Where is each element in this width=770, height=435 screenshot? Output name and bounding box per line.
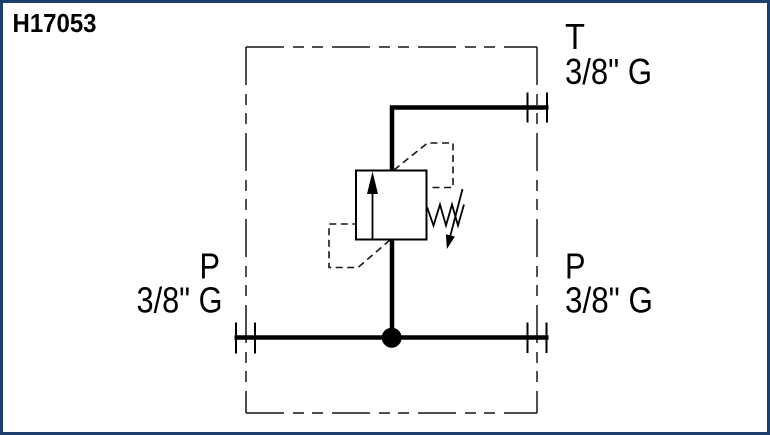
enclosure boundary (dashed) <box>246 47 537 413</box>
flow arrow <box>372 192 374 239</box>
wire P line <box>235 335 549 340</box>
port P left ticks <box>235 323 237 354</box>
wire valve to junction <box>390 238 395 338</box>
pilot line lower <box>329 224 390 268</box>
pilot line upper <box>394 143 453 188</box>
node junction <box>382 328 402 348</box>
wire T line <box>392 108 549 174</box>
spring <box>427 205 464 226</box>
port T ticks <box>527 93 529 123</box>
svg-text:3/8" G: 3/8" G <box>565 280 653 321</box>
valve body U1 <box>356 171 427 240</box>
adjustment arrow <box>450 189 463 239</box>
svg-text:3/8" G: 3/8" G <box>137 280 223 321</box>
port P right ticks <box>527 323 529 354</box>
svg-text:3/8" G: 3/8" G <box>565 51 652 92</box>
svg-text:H17053: H17053 <box>13 8 97 38</box>
